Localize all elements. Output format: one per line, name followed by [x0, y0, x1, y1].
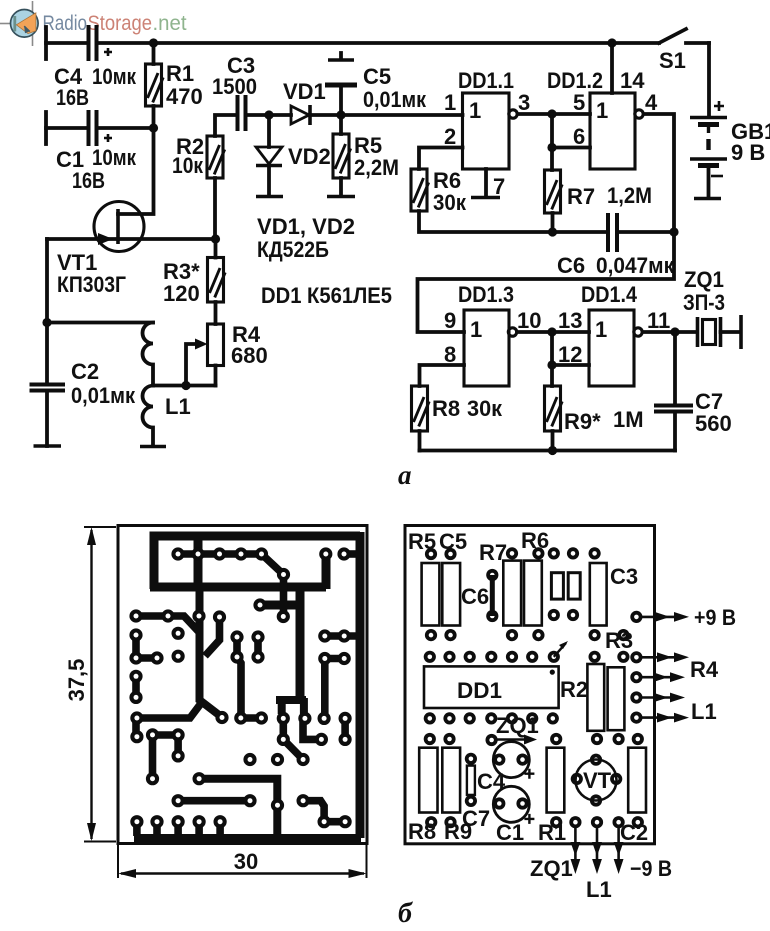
- arrow -9V down: [614, 828, 624, 874]
- component C1 circle: [493, 786, 534, 824]
- svg-text:DD1.1: DD1.1: [458, 68, 514, 93]
- trace left row B chain: [136, 616, 199, 632]
- svg-text:37,5: 37,5: [64, 659, 89, 702]
- wire pin6: [552, 146, 590, 150]
- svg-text:470: 470: [166, 84, 203, 109]
- right arrows: [642, 605, 736, 724]
- svg-text:11: 11: [647, 308, 670, 333]
- svg-text:30к: 30к: [433, 190, 467, 215]
- component R8 outline: [419, 748, 437, 813]
- wire C1 rail: [46, 126, 89, 130]
- svg-text:1: 1: [596, 98, 608, 123]
- node out1: [547, 109, 556, 118]
- svg-text:C5: C5: [439, 529, 467, 554]
- transistor VT circle: [576, 760, 617, 801]
- component R9 outline: [442, 748, 460, 813]
- svg-text:R5: R5: [408, 529, 436, 554]
- diode VD2: [256, 115, 331, 196]
- wire pin2 R6: [419, 148, 463, 170]
- label VD1 VD2 type: [257, 214, 355, 262]
- trace left pad718 to center: [137, 704, 201, 718]
- svg-text:C6: C6: [461, 584, 489, 609]
- ground bar R5: [327, 195, 355, 199]
- svg-text:C4: C4: [477, 769, 506, 794]
- resistor R3: [163, 239, 225, 324]
- svg-text:9: 9: [444, 308, 456, 333]
- label DD1 type: [261, 283, 392, 308]
- svg-text:а: а: [398, 460, 412, 490]
- svg-text:6: 6: [573, 124, 585, 149]
- svg-text:R8: R8: [408, 819, 436, 844]
- wire L1 tap: [153, 384, 216, 388]
- svg-text:R1: R1: [166, 61, 194, 86]
- svg-text:1500: 1500: [212, 74, 257, 99]
- svg-text:1M: 1M: [613, 407, 644, 432]
- svg-text:7: 7: [493, 174, 505, 199]
- wire DD1.4 out: [643, 330, 698, 334]
- svg-text:VD2: VD2: [288, 144, 331, 169]
- arrow L1 top: [642, 693, 685, 703]
- component C6 link: [490, 575, 495, 616]
- component R2 outline: [587, 664, 604, 731]
- svg-text:5: 5: [573, 90, 585, 115]
- trace bottom stubs: [137, 822, 220, 836]
- svg-text:R9*: R9*: [564, 409, 601, 434]
- component R3 outline: [608, 667, 625, 730]
- svg-text:R7: R7: [567, 184, 595, 209]
- node C5: [336, 110, 345, 119]
- label ZQ1 with arrow: [496, 713, 539, 745]
- trace mid vertical from second bar: [260, 589, 300, 698]
- capacitor C4: [54, 25, 137, 110]
- trace mid dumbbells: [237, 637, 258, 657]
- trace elbow to pad row718: [237, 657, 241, 716]
- svg-text:10к: 10к: [172, 153, 204, 178]
- svg-text:DD1 К561ЛЕ5: DD1 К561ЛЕ5: [261, 283, 392, 308]
- terminal input top: [44, 27, 48, 59]
- component C2 outline: [628, 748, 646, 813]
- component R5 outline: [422, 563, 440, 626]
- quartz ZQ1: [683, 267, 741, 349]
- pcb copper traces: [134, 532, 361, 839]
- svg-text:560: 560: [695, 411, 732, 436]
- trace second bar: [322, 556, 331, 589]
- wire C1 to node: [97, 126, 154, 130]
- svg-text:C5: C5: [363, 64, 391, 89]
- placement board outline: [405, 526, 655, 844]
- op-amp gate DD1.3: [444, 282, 541, 386]
- switch S1: [659, 29, 709, 73]
- op-amp gate DD1.1: [444, 68, 530, 169]
- svg-text:VD1, VD2: VD1, VD2: [257, 214, 355, 239]
- svg-text:0,01мк: 0,01мк: [363, 87, 427, 112]
- svg-text:10мк: 10мк: [92, 64, 137, 89]
- svg-text:DD1.3: DD1.3: [458, 282, 514, 307]
- diode VD1: [283, 79, 326, 125]
- wire VD1 to DD1.1: [310, 113, 463, 117]
- trace center vertical: [200, 587, 222, 717]
- node gate/R3: [211, 234, 220, 243]
- svg-text:VT: VT: [583, 768, 612, 793]
- placement labels top: [408, 528, 638, 702]
- svg-text:L1: L1: [165, 394, 191, 419]
- node pin6: [547, 143, 556, 152]
- svg-text:ЗП-3: ЗП-3: [683, 290, 725, 315]
- wire bottom rail: [420, 449, 676, 453]
- ground bar C2: [34, 444, 62, 448]
- svg-text:16В: 16В: [56, 85, 89, 110]
- node bottom R9: [548, 446, 557, 455]
- svg-text:1: 1: [469, 98, 481, 123]
- node out3: [547, 327, 556, 336]
- svg-text:КД522Б: КД522Б: [257, 237, 329, 262]
- svg-text:4: 4: [645, 90, 658, 115]
- terminal input bottom: [44, 112, 48, 144]
- wire vertical to R9: [550, 332, 554, 386]
- arrow R4 top: [642, 652, 689, 662]
- svg-text:б: б: [398, 898, 413, 929]
- resistor R9: [545, 386, 644, 451]
- svg-text:16В: 16В: [72, 168, 105, 193]
- trace long horizontal y779: [199, 779, 277, 838]
- trace mid cluster: [153, 735, 179, 779]
- trace pad stub: [205, 620, 220, 656]
- svg-text:680: 680: [231, 343, 268, 368]
- pcb dimension 37,5: [64, 527, 116, 842]
- trimmer R4: [186, 322, 268, 386]
- chip DD1 outline: [424, 666, 559, 708]
- node R7 bottom: [548, 227, 557, 236]
- svg-text:3: 3: [518, 90, 530, 115]
- logo RadioStorage.net: [0, 1, 187, 46]
- capacitor C7: [654, 332, 732, 451]
- label b: [398, 898, 413, 929]
- node out4: [670, 327, 679, 336]
- trace row718 links: [241, 718, 345, 739]
- trace bar links top right pads: [344, 550, 359, 558]
- trace right mid chains: [325, 636, 356, 716]
- component jumper squares: [551, 573, 580, 599]
- svg-text:1: 1: [470, 317, 482, 342]
- node pin12: [547, 360, 556, 369]
- trace row A chain: [178, 550, 262, 558]
- op-amp gate DD1.4: [558, 282, 670, 386]
- wire DD1.2 out: [644, 114, 675, 232]
- trace left pairs: [136, 635, 157, 737]
- placement pads: [424, 547, 644, 828]
- capacitor C6: [557, 213, 675, 278]
- resistor R1: [146, 43, 203, 128]
- node C6 right: [669, 227, 678, 236]
- resistor R8: [412, 386, 503, 451]
- logo text: [43, 12, 187, 35]
- label a: [398, 460, 412, 490]
- svg-text:9 В: 9 В: [731, 140, 765, 165]
- svg-text:2,2M: 2,2M: [354, 155, 399, 180]
- svg-text:13: 13: [558, 308, 582, 333]
- svg-text:1: 1: [595, 317, 607, 342]
- svg-text:.net: .net: [153, 12, 187, 35]
- trace diagonal rowA: [262, 554, 284, 617]
- svg-text:S1: S1: [659, 48, 686, 73]
- svg-text:R6: R6: [521, 528, 549, 553]
- svg-text:R3: R3: [605, 628, 633, 653]
- component R7 outlines: [503, 561, 542, 626]
- resistor R7: [545, 170, 653, 232]
- capacitor C1: [56, 110, 137, 193]
- svg-text:1: 1: [444, 90, 456, 115]
- node left rail: [42, 318, 51, 327]
- capacitor C3: [212, 53, 257, 131]
- arrow ZQ1 down: [571, 828, 581, 874]
- pcb dimension 30: [118, 845, 367, 878]
- resistor R5: [333, 115, 399, 196]
- node VD2: [264, 110, 273, 119]
- ground bar L1: [140, 445, 166, 449]
- node top pin14: [607, 38, 616, 47]
- component R1 outline: [547, 748, 565, 813]
- wire DD1.1 out: [518, 112, 553, 116]
- component C5 outline: [442, 563, 460, 626]
- svg-text:C7: C7: [462, 806, 490, 831]
- wiper mark pad: [554, 641, 568, 657]
- capacitor C2: [30, 359, 136, 446]
- placement labels bottom: [408, 769, 648, 845]
- svg-text:12: 12: [558, 342, 582, 367]
- trace y800: [178, 797, 250, 805]
- svg-text:R1: R1: [538, 820, 566, 845]
- svg-text:ZQ1: ZQ1: [684, 267, 724, 292]
- svg-text:30к: 30к: [467, 396, 503, 421]
- wire DD1.3 out: [517, 330, 552, 334]
- trace dumbbell 283: [283, 718, 303, 759]
- resistor R6: [411, 168, 608, 232]
- svg-text:10мк: 10мк: [92, 145, 137, 170]
- op-amp gate DD1.2: [547, 68, 658, 169]
- svg-text:C1: C1: [496, 820, 524, 845]
- svg-text:DD1.4: DD1.4: [581, 282, 638, 307]
- node tap: [181, 381, 190, 390]
- svg-text:C2: C2: [71, 359, 99, 384]
- wire tank top: [47, 321, 153, 325]
- wire pin 14: [610, 43, 614, 93]
- svg-text:DD1: DD1: [457, 678, 502, 703]
- node C1/R1: [149, 123, 158, 132]
- trace bar y696: [276, 698, 306, 714]
- wire vertical to R7: [550, 114, 554, 170]
- svg-text:L1: L1: [586, 877, 612, 902]
- svg-text:10: 10: [517, 308, 541, 333]
- component C4 circle: [493, 742, 534, 779]
- node top R1: [149, 38, 158, 47]
- svg-text:R4: R4: [690, 657, 719, 682]
- trace right vertical rail: [356, 532, 365, 838]
- arrow +9V: [642, 605, 736, 630]
- trace L 321: [303, 722, 321, 739]
- svg-text:ZQ1: ZQ1: [530, 856, 573, 881]
- logo circle icon: [10, 9, 38, 37]
- svg-text:120: 120: [163, 281, 200, 306]
- svg-text:1,2M: 1,2M: [607, 183, 652, 208]
- logo crosshair lines: [0, 1, 33, 46]
- svg-text:КП303Г: КП303Г: [57, 272, 126, 297]
- svg-text:L1: L1: [691, 699, 717, 724]
- wire feedback to pin9: [418, 232, 675, 332]
- wire drain vertical: [118, 128, 154, 214]
- capacitor C5: [325, 53, 427, 115]
- wire pin8 R8: [420, 365, 465, 386]
- left rail vertical: [45, 239, 49, 384]
- pcb board outline: [118, 526, 367, 844]
- svg-text:VD1: VD1: [283, 79, 326, 104]
- arrow L1 bottom: [642, 713, 689, 723]
- transistor VT1: [47, 202, 216, 298]
- svg-text:Radio: Radio: [43, 12, 88, 35]
- svg-text:R8: R8: [432, 396, 460, 421]
- svg-text:0,01мк: 0,01мк: [71, 383, 136, 408]
- bottom arrows: [530, 828, 672, 902]
- svg-text:14: 14: [620, 68, 645, 93]
- ground bar VD2: [256, 195, 283, 199]
- wire top rail left: [46, 41, 89, 45]
- svg-text:0,047мк: 0,047мк: [596, 253, 675, 278]
- arrow L1 down: [592, 828, 602, 874]
- wire node to pin5: [552, 112, 590, 116]
- svg-text:+9 В: +9 В: [694, 605, 736, 630]
- wire top rail: [97, 41, 660, 45]
- svg-text:R2: R2: [560, 677, 588, 702]
- svg-text:C2: C2: [620, 820, 648, 845]
- pin 7 ground DD1.1: [471, 169, 505, 199]
- component C3 outline: [590, 563, 607, 626]
- svg-text:R7: R7: [479, 540, 507, 565]
- svg-text:ZQ1: ZQ1: [496, 713, 539, 738]
- wire pin12: [552, 363, 589, 367]
- svg-text:C6: C6: [557, 253, 585, 278]
- battery GB1: [690, 43, 770, 199]
- svg-text:−9 В: −9 В: [630, 856, 672, 881]
- pcb pads: [129, 547, 351, 828]
- trace bottom bar: [134, 834, 361, 843]
- wire node to pin13: [552, 330, 589, 334]
- svg-text:C3: C3: [610, 564, 638, 589]
- resistor R2: [172, 115, 238, 239]
- inductor L1: [143, 323, 191, 447]
- svg-text:2: 2: [444, 124, 456, 149]
- wire C3 to node: [246, 113, 292, 117]
- component C7 outline: [467, 766, 475, 795]
- svg-text:30: 30: [234, 849, 258, 874]
- trace top bar with left drop and foot: [150, 536, 360, 589]
- trace right bottom L: [303, 801, 345, 822]
- arrow R4 bottom: [642, 672, 685, 682]
